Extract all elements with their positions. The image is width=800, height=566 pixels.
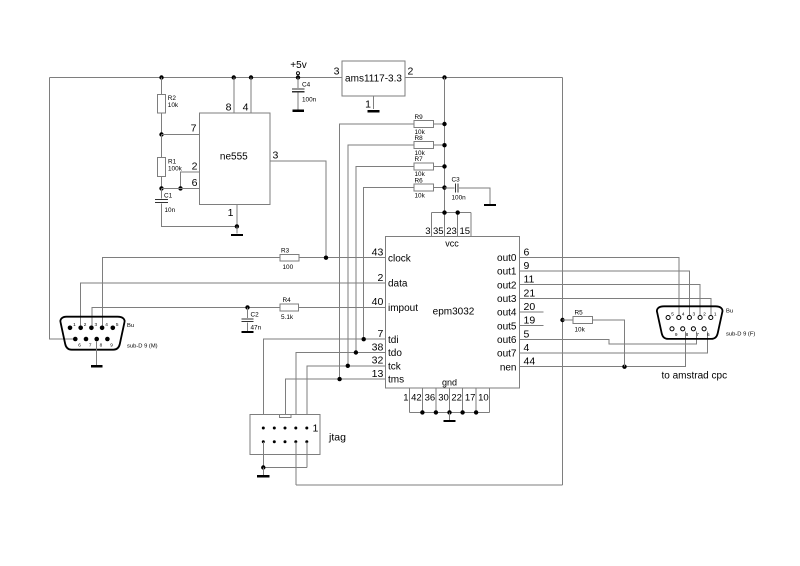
resistor R4 [280, 297, 299, 321]
svg-text:2: 2 [377, 272, 383, 284]
svg-text:42: 42 [411, 393, 422, 404]
pin 38 label tdo [372, 341, 403, 359]
resistor R1 [158, 132, 183, 188]
svg-text:6: 6 [192, 177, 198, 189]
svg-text:out5: out5 [497, 321, 517, 332]
svg-text:100n: 100n [302, 97, 317, 104]
wire ams1117 pin 1 [365, 96, 373, 111]
svg-text:1: 1 [365, 99, 371, 111]
wire impout net left [92, 307, 280, 327]
svg-text:44: 44 [524, 356, 536, 368]
svg-text:8: 8 [226, 102, 232, 114]
wire nen net [520, 331, 686, 369]
ground ams1117 [368, 110, 380, 112]
wire vcc bus [432, 210, 472, 236]
svg-text:sub-D 9 (F): sub-D 9 (F) [726, 332, 755, 338]
capacitor C4 [292, 78, 317, 110]
svg-text:4: 4 [105, 322, 108, 327]
svg-text:8: 8 [100, 342, 103, 347]
resistor R2 [158, 75, 179, 134]
capacitor C1 [155, 186, 237, 226]
pin 5 label out6 [497, 328, 529, 346]
wire ne555 pin 1 [228, 205, 237, 227]
svg-text:clock: clock [388, 253, 412, 264]
svg-text:5: 5 [524, 328, 530, 340]
svg-text:9: 9 [524, 260, 530, 272]
connector X1 sub-D 9 M [60, 317, 124, 350]
wire impout net to cpld [299, 306, 386, 308]
wire R6 left leg down [364, 188, 414, 340]
wire 3.3v rail from regulator to right corner [405, 77, 563, 79]
wire 3.3v distribution vertical [442, 75, 446, 212]
svg-text:20: 20 [524, 301, 536, 313]
svg-text:out3: out3 [497, 294, 517, 305]
svg-text:R8: R8 [415, 135, 424, 142]
wire out2 net [520, 285, 701, 316]
svg-text:sub-D 9 (M): sub-D 9 (M) [127, 343, 158, 349]
svg-text:1: 1 [403, 393, 408, 404]
wire R9 right leg to rail [434, 122, 447, 126]
svg-text:out6: out6 [497, 335, 517, 346]
pin 20 label out4 [497, 301, 535, 319]
svg-text:6: 6 [524, 246, 530, 258]
wire R6 right leg to rail [434, 185, 447, 189]
wire jtag vref pin to 3.3v [295, 442, 297, 485]
pin 43 label clock [372, 247, 412, 265]
svg-text:15: 15 [460, 226, 471, 237]
svg-text:R3: R3 [281, 247, 290, 254]
svg-text:13: 13 [372, 368, 384, 380]
svg-text:10k: 10k [168, 102, 179, 109]
svg-text:32: 32 [372, 355, 384, 367]
resistor R9 [414, 114, 434, 136]
svg-text:100: 100 [283, 264, 294, 271]
resistor R6 [414, 177, 434, 199]
pin 4 label out7 [497, 342, 529, 360]
svg-text:C1: C1 [164, 193, 173, 200]
wire out0 net [520, 257, 680, 315]
svg-text:11: 11 [524, 274, 535, 286]
svg-text:Bu: Bu [726, 309, 733, 315]
svg-text:43: 43 [372, 247, 384, 259]
svg-text:23: 23 [446, 226, 457, 237]
svg-text:6: 6 [78, 342, 81, 347]
node +5v supply terminal [290, 60, 306, 80]
svg-text:C2: C2 [251, 312, 260, 319]
svg-text:35: 35 [433, 226, 444, 237]
svg-text:out1: out1 [497, 267, 517, 278]
resistor R7 [414, 156, 434, 178]
wire R7 left leg down [356, 166, 414, 352]
svg-text:7: 7 [89, 342, 92, 347]
regulator U2 ams1117-3.3 [342, 61, 405, 96]
svg-text:4: 4 [243, 102, 249, 114]
wire R7 right leg to rail [434, 164, 447, 168]
svg-text:9: 9 [110, 342, 113, 347]
svg-text:10k: 10k [575, 327, 586, 334]
cpld U3 epm3032 [385, 237, 519, 388]
svg-text:C4: C4 [302, 82, 311, 89]
ground C2 [242, 331, 254, 333]
svg-text:4: 4 [682, 312, 685, 317]
svg-text:7: 7 [696, 332, 699, 337]
ground sub-D M pin 8 [91, 341, 103, 367]
svg-text:2: 2 [192, 161, 198, 173]
wire out5 stub [520, 325, 544, 327]
svg-text:3: 3 [95, 322, 98, 327]
svg-text:21: 21 [524, 287, 536, 299]
svg-text:Bu: Bu [127, 323, 134, 329]
svg-text:jtag: jtag [328, 432, 346, 444]
svg-text:1: 1 [313, 422, 319, 434]
svg-text:vcc: vcc [445, 238, 459, 248]
svg-text:epm3032: epm3032 [433, 307, 475, 318]
pin 11 label out2 [497, 274, 535, 292]
pin 2 label data [377, 272, 407, 290]
wire right-side 3.3v vertical [562, 78, 564, 486]
svg-text:R1: R1 [168, 159, 177, 166]
svg-text:R4: R4 [283, 297, 292, 304]
svg-text:ams1117-3.3: ams1117-3.3 [345, 74, 402, 85]
svg-text:out2: out2 [497, 280, 517, 291]
resistor R5 [560, 310, 624, 367]
ground cpld [444, 412, 456, 422]
svg-text:7: 7 [377, 328, 383, 340]
pin 21 label out3 [497, 287, 535, 305]
svg-text:5: 5 [116, 322, 119, 327]
pin 13 label tms [372, 368, 404, 386]
svg-text:+5v: +5v [290, 60, 306, 71]
pin 6 label out0 [497, 246, 529, 264]
pin 19 label out5 [497, 315, 535, 333]
svg-text:R5: R5 [575, 310, 584, 317]
wire R8 left leg down [348, 145, 414, 366]
wire R8 right leg to rail [434, 143, 447, 147]
svg-text:3: 3 [273, 150, 279, 162]
wire out7 net [520, 331, 708, 353]
ground jtag [257, 475, 270, 477]
wire data net [81, 283, 386, 328]
svg-text:22: 22 [451, 393, 462, 404]
svg-text:10: 10 [478, 393, 489, 404]
svg-text:R2: R2 [168, 95, 177, 102]
svg-text:data: data [388, 279, 408, 290]
wire +5v top rail [50, 77, 343, 79]
svg-text:2: 2 [408, 66, 414, 78]
wire clock net left [102, 258, 280, 328]
wire left +5v frame down to sub-D M pin 6 [50, 78, 76, 340]
connector X2 sub-D 9 F [657, 306, 723, 339]
svg-text:to amstrad cpc: to amstrad cpc [662, 371, 728, 382]
svg-text:out4: out4 [497, 308, 517, 319]
svg-text:1: 1 [714, 312, 717, 317]
svg-text:out0: out0 [497, 253, 517, 264]
svg-text:C3: C3 [452, 177, 461, 184]
wire ne555 pin 4 to rail [243, 75, 254, 113]
wire ne555 pin 6 [162, 177, 200, 191]
pin 7 label tdi [377, 328, 398, 346]
svg-text:tck: tck [388, 361, 402, 372]
resistor R3 [280, 247, 299, 270]
wire tck net [307, 364, 385, 427]
svg-text:5: 5 [671, 312, 674, 317]
svg-text:10k: 10k [415, 192, 426, 199]
svg-text:1: 1 [228, 207, 234, 219]
capacitor C2 [242, 305, 262, 331]
pin 32 label tck [372, 355, 402, 373]
svg-text:100k: 100k [168, 166, 183, 173]
op-amp U1 ne555 [200, 113, 271, 205]
svg-text:3: 3 [693, 312, 696, 317]
svg-text:nen: nen [500, 362, 517, 373]
wire clock net to cpld [299, 256, 385, 260]
svg-text:100n: 100n [452, 195, 467, 202]
ground C4 [293, 110, 305, 112]
svg-text:40: 40 [372, 296, 384, 308]
svg-text:36: 36 [425, 393, 436, 404]
svg-text:1: 1 [73, 322, 76, 327]
wire out3 net [520, 298, 712, 315]
svg-text:5.1k: 5.1k [281, 314, 294, 321]
wire bottom run to jtag [296, 484, 563, 486]
wire ne555 pin 8 to rail [226, 75, 236, 113]
svg-text:tdi: tdi [388, 335, 399, 346]
svg-text:2: 2 [703, 312, 706, 317]
svg-text:impout: impout [388, 303, 418, 314]
svg-text:tms: tms [388, 375, 404, 386]
wire tdo net [296, 350, 385, 427]
capacitor C3 [445, 177, 491, 204]
svg-text:47n: 47n [251, 325, 262, 332]
svg-text:R7: R7 [415, 156, 424, 163]
svg-text:9: 9 [675, 332, 678, 337]
ground ne555 [231, 224, 243, 236]
svg-text:10n: 10n [165, 207, 176, 214]
wire out4 stub [520, 311, 544, 313]
svg-text:19: 19 [524, 315, 536, 327]
wire out1 net [520, 271, 690, 315]
wire out6 net [520, 331, 697, 344]
svg-text:out7: out7 [497, 349, 517, 360]
svg-text:3: 3 [425, 226, 430, 237]
svg-text:6: 6 [707, 332, 710, 337]
ground C3 [484, 204, 496, 206]
wire R9 left leg down [340, 124, 414, 379]
svg-text:38: 38 [372, 341, 384, 353]
svg-text:gnd: gnd [442, 377, 457, 387]
wire ne555 pin 7 [162, 123, 200, 135]
connector J1 jtag [250, 415, 320, 455]
wire ne555 pin 2 [181, 161, 200, 189]
svg-text:30: 30 [438, 393, 449, 404]
svg-text:ne555: ne555 [220, 151, 248, 162]
svg-text:4: 4 [524, 342, 530, 354]
wire gnd bus under cpld [409, 388, 489, 415]
svg-text:2: 2 [84, 322, 87, 327]
svg-text:R9: R9 [415, 114, 424, 121]
wire jtag ground pins [261, 442, 307, 475]
svg-text:R6: R6 [415, 177, 424, 184]
pin 44 label nen [500, 356, 536, 374]
wire tms net [286, 377, 386, 427]
svg-text:8: 8 [686, 332, 689, 337]
resistor R8 [414, 135, 434, 157]
wire tdi net [263, 337, 385, 427]
wire ne555 pin 3 output [270, 150, 326, 259]
pin 40 label impout [372, 296, 419, 314]
svg-text:3: 3 [334, 66, 340, 78]
pin 9 label out1 [497, 260, 529, 278]
svg-text:tdo: tdo [388, 348, 402, 359]
svg-text:17: 17 [465, 393, 476, 404]
svg-text:7: 7 [191, 123, 197, 135]
